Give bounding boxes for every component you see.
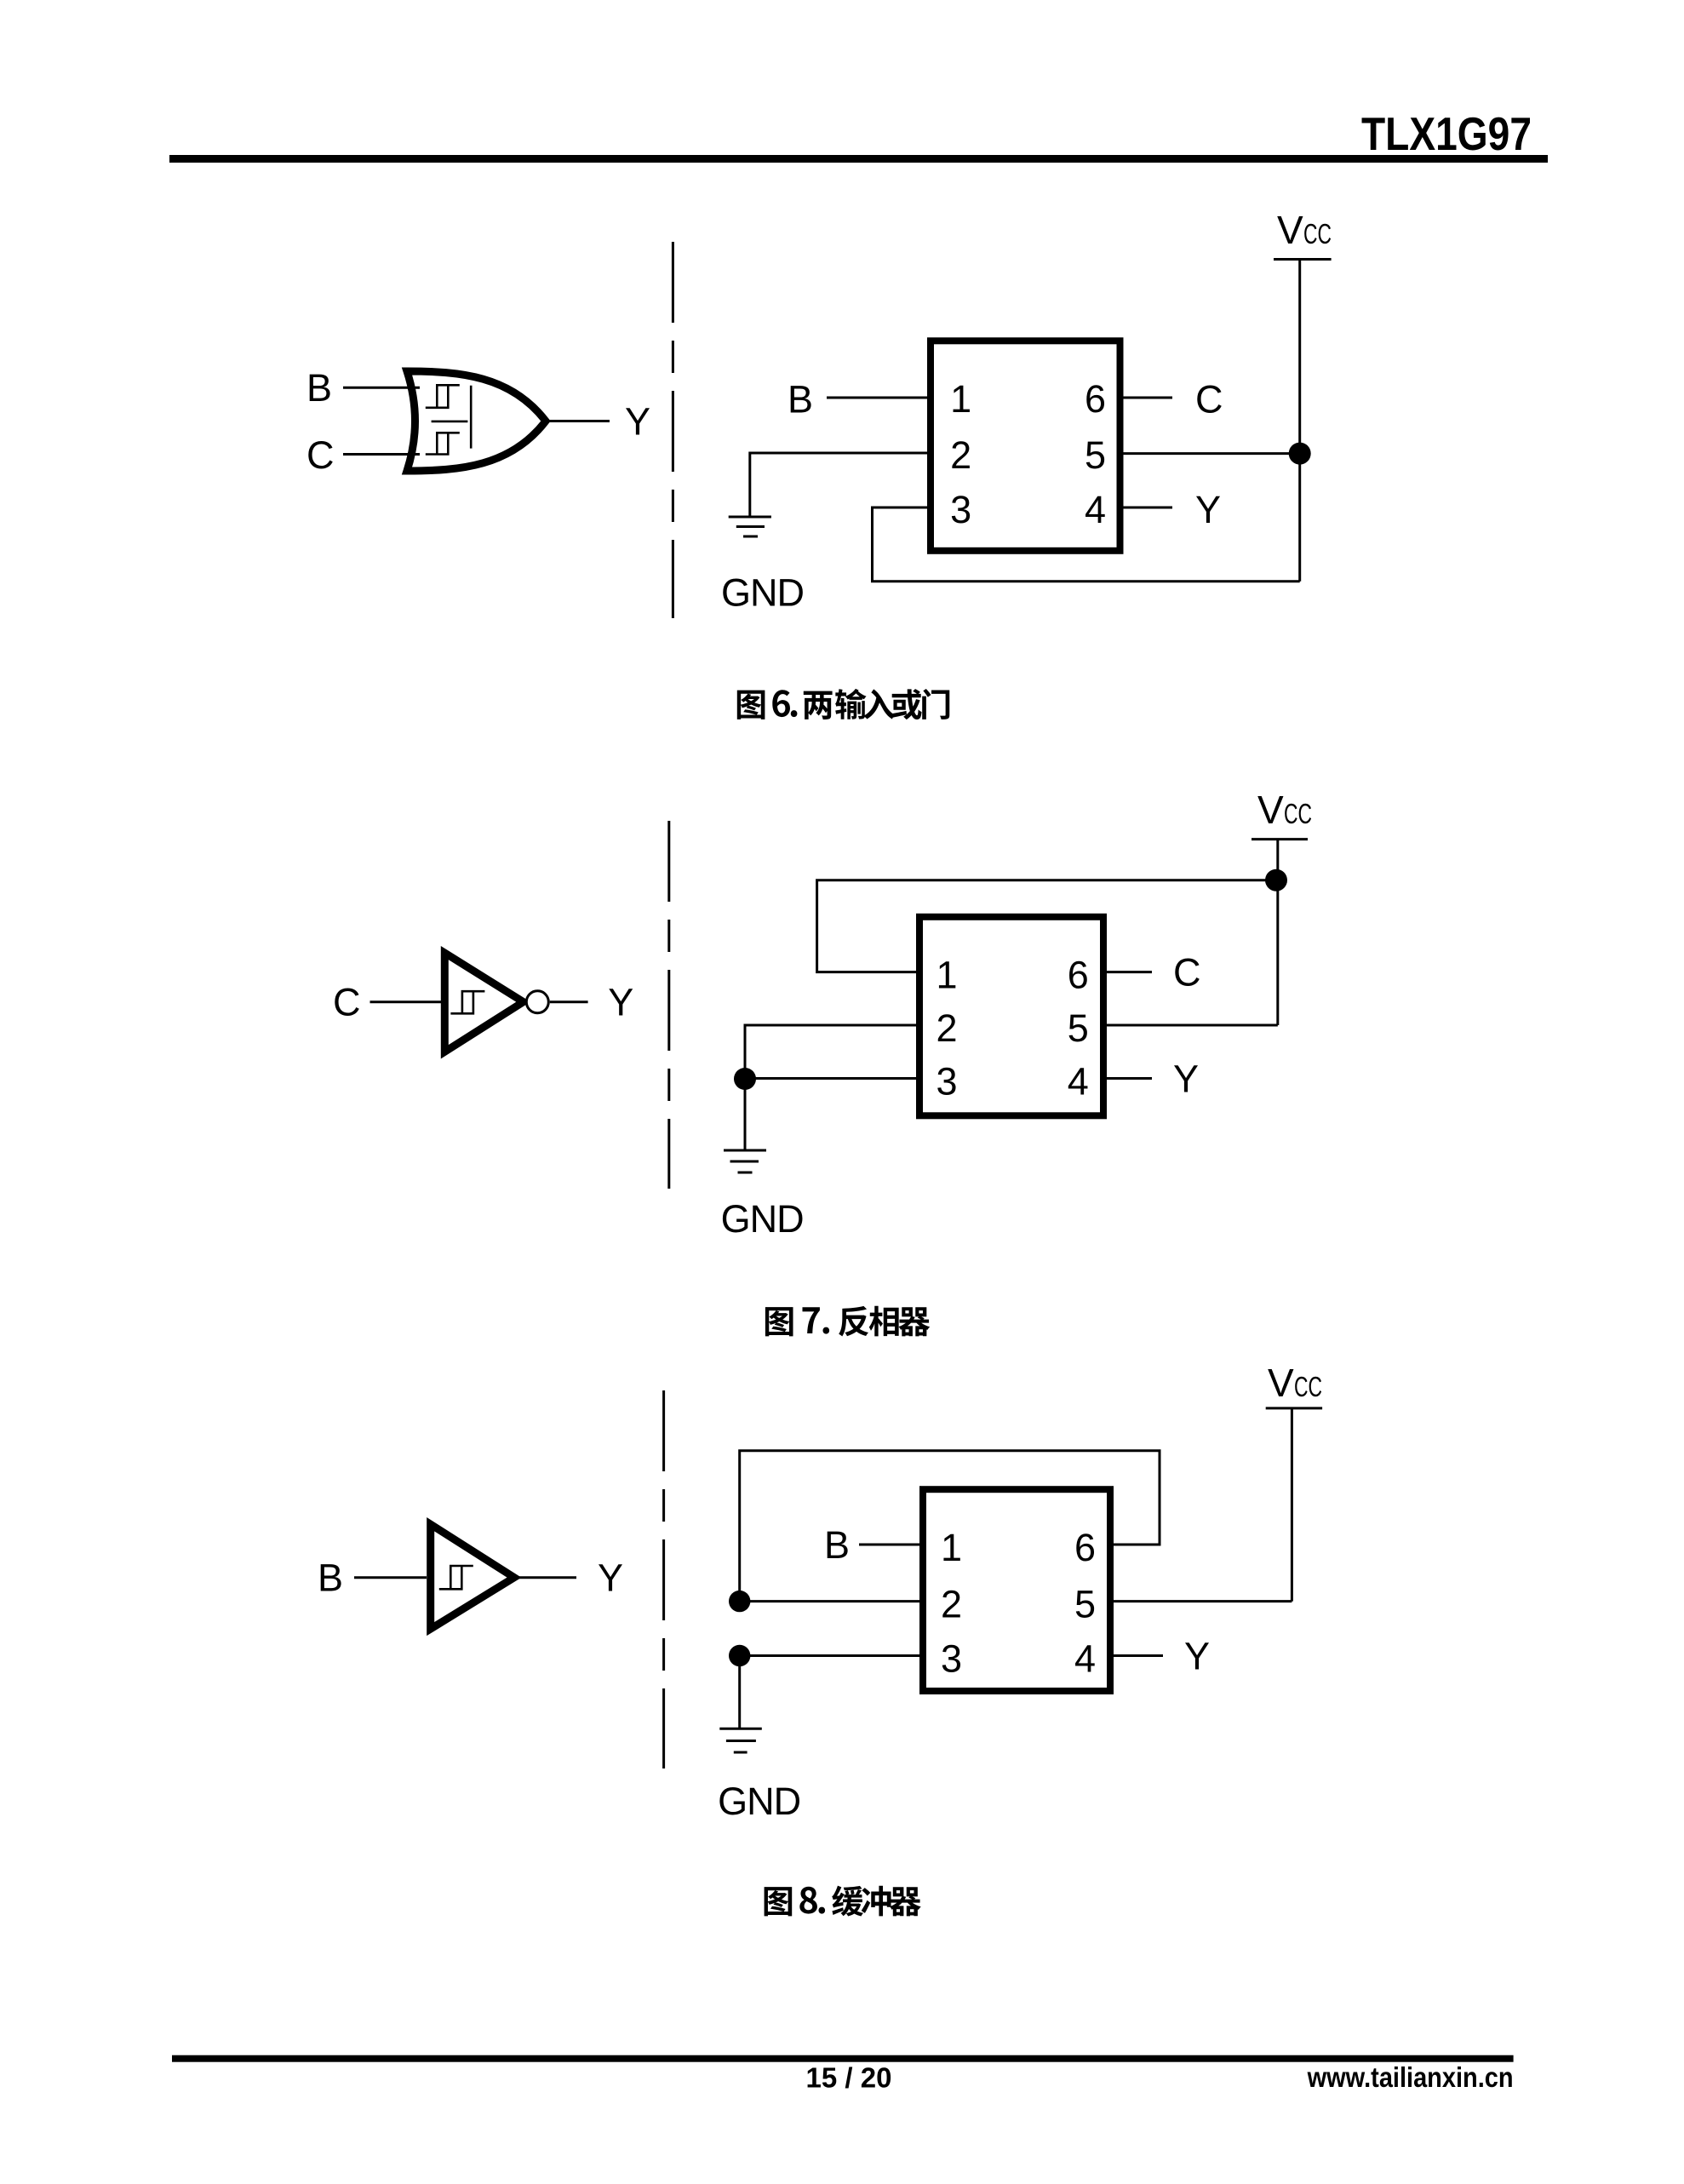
svg-text:TLX1G97: TLX1G97: [1361, 107, 1532, 160]
svg-text:CC: CC: [1284, 798, 1312, 829]
svg-text:6: 6: [1074, 1526, 1096, 1569]
svg-text:4: 4: [1074, 1637, 1096, 1681]
svg-text:C: C: [1173, 951, 1201, 995]
svg-text:C: C: [306, 433, 335, 477]
svg-text:6: 6: [1068, 954, 1089, 997]
svg-text:V: V: [1257, 788, 1284, 832]
svg-text:5: 5: [1085, 433, 1106, 477]
svg-text:3: 3: [950, 488, 971, 531]
svg-text:B: B: [306, 366, 332, 410]
svg-text:C: C: [333, 981, 361, 1024]
svg-text:CC: CC: [1303, 218, 1332, 249]
svg-text:2: 2: [936, 1006, 957, 1050]
svg-text:4: 4: [1068, 1060, 1089, 1103]
svg-text:CC: CC: [1294, 1371, 1322, 1402]
svg-text:3: 3: [936, 1060, 957, 1103]
svg-text:4: 4: [1085, 488, 1106, 531]
svg-text:15 / 20: 15 / 20: [806, 2062, 892, 2094]
svg-text:GND: GND: [718, 1780, 800, 1823]
svg-text:V: V: [1268, 1361, 1294, 1405]
svg-text:www.tailianxin.cn: www.tailianxin.cn: [1307, 2061, 1514, 2093]
svg-text:3: 3: [941, 1637, 962, 1681]
svg-text:Y: Y: [598, 1556, 623, 1600]
svg-text:5: 5: [1074, 1583, 1096, 1626]
svg-text:1: 1: [936, 954, 957, 997]
svg-text:C: C: [1195, 378, 1223, 421]
svg-text:Y: Y: [608, 981, 633, 1024]
svg-text:GND: GND: [721, 571, 804, 615]
svg-text:1: 1: [950, 377, 971, 421]
svg-text:1: 1: [941, 1526, 962, 1569]
svg-text:6: 6: [1085, 377, 1106, 421]
svg-text:V: V: [1277, 208, 1303, 252]
svg-text:B: B: [788, 378, 813, 421]
svg-text:2: 2: [941, 1583, 962, 1626]
svg-text:5: 5: [1068, 1006, 1089, 1050]
svg-text:B: B: [318, 1556, 343, 1600]
svg-text:Y: Y: [1184, 1635, 1210, 1678]
svg-text:2: 2: [950, 433, 971, 477]
svg-text:GND: GND: [721, 1197, 804, 1241]
svg-text:Y: Y: [1173, 1058, 1199, 1101]
svg-text:Y: Y: [625, 400, 650, 444]
svg-text:B: B: [824, 1523, 850, 1567]
svg-text:Y: Y: [1195, 488, 1221, 531]
